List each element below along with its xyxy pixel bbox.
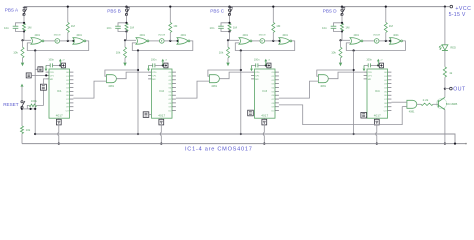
svg-text:4081: 4081 — [211, 84, 217, 88]
wire pull-up to rail — [385, 7, 387, 23]
IC 0V power pin box — [376, 118, 378, 119]
wire gate1 out to diode — [149, 40, 159, 42]
junction pulldown — [339, 39, 341, 41]
resistor 1M (R7) — [228, 23, 231, 31]
junction rail switch — [228, 6, 230, 8]
svg-text:BC182B: BC182B — [446, 102, 458, 106]
junction OUT node — [444, 88, 446, 90]
wire rail to LED — [444, 7, 446, 45]
junction pulldown — [124, 39, 126, 41]
NOR gate latch set (IC gate 2a 4001) — [136, 38, 147, 45]
svg-text:4001: 4001 — [354, 34, 360, 37]
svg-text:1M: 1M — [276, 24, 281, 28]
wire IC 0V to ground rail with hop — [376, 125, 378, 133]
wire IC3 output O to final gate bus — [279, 105, 402, 125]
junction rail pull-up — [169, 6, 171, 8]
push switch PBS C (SW3) — [229, 7, 231, 10]
AND gate 4081 stage 1 — [107, 75, 117, 83]
capacitor 0V stub — [251, 65, 253, 68]
capacitor 10n (C3) — [221, 23, 230, 26]
push switch PBS A (SW1) — [23, 7, 25, 10]
svg-text:4081: 4081 — [108, 84, 114, 88]
junction reset/0V — [454, 143, 456, 145]
diode 1N4148 (D1) — [55, 39, 60, 44]
svg-text:1M: 1M — [173, 24, 178, 28]
wire reset switch down — [21, 109, 23, 127]
svg-text:CO: CO — [66, 111, 70, 113]
diode 1N4148 (D4) — [374, 39, 379, 44]
NOR gate latch set (IC gate 3a 4001) — [239, 38, 250, 45]
wire diode to gate2 — [164, 40, 177, 42]
wire RC to gate input — [229, 32, 231, 41]
junction rail pull-up — [385, 6, 387, 8]
junction RC bottom — [23, 30, 25, 32]
IC right pins O0-O9 CO — [275, 71, 279, 73]
svg-text:MR: MR — [152, 79, 156, 81]
svg-text:4081: 4081 — [409, 110, 415, 114]
junction 0V rail — [263, 143, 265, 145]
junction rail switch — [341, 6, 343, 8]
IC 0V power pin box — [263, 118, 265, 119]
junction pull-up node — [272, 40, 274, 42]
tag box clock A — [26, 73, 31, 78]
junction pulldown — [21, 39, 23, 41]
svg-text:1N4148: 1N4148 — [373, 34, 381, 36]
svg-text:CO: CO — [168, 111, 172, 113]
+V arrow above IC — [59, 61, 61, 65]
ground arrow — [124, 58, 126, 63]
wire pull-up to rail — [272, 7, 274, 23]
junction RC bottom — [228, 30, 230, 32]
svg-text:1M: 1M — [345, 26, 350, 30]
resistor 1M (R10) — [341, 23, 344, 31]
svg-text:RED: RED — [450, 46, 456, 50]
svg-text:100n: 100n — [366, 59, 372, 62]
wire RC to gate input — [341, 32, 343, 41]
0V rail end — [465, 143, 467, 145]
junction 0V rail — [160, 143, 162, 145]
NOR gate latch set (IC gate 4a 4001) — [350, 38, 361, 45]
wire gate1 out to diode — [44, 40, 55, 42]
IC right pins O0-O9 CO — [388, 71, 392, 73]
wire AND output to IC clock pin — [328, 72, 363, 79]
svg-text:1N4148: 1N4148 — [54, 34, 62, 36]
junction IC1 clock — [45, 74, 47, 76]
svg-text:PBS D: PBS D — [323, 9, 337, 14]
svg-text:1M: 1M — [233, 26, 238, 30]
IC +V power pin box — [164, 63, 168, 68]
wire latch feedback — [27, 41, 88, 51]
resistor 10k pulldown (R2) — [22, 40, 24, 47]
wire gate1 out to diode — [252, 40, 260, 42]
svg-text:IC3: IC3 — [262, 89, 267, 93]
wire latch feedback — [235, 41, 294, 51]
svg-text:1M: 1M — [130, 26, 135, 30]
resistor 1M pull-up (R3) — [67, 32, 69, 41]
tag box MR block B — [143, 112, 149, 118]
junction on reset line — [353, 133, 355, 135]
resistor 10k pulldown (R5) — [124, 40, 126, 47]
resistor 10k pulldown (R11) — [340, 40, 342, 47]
push switch RESET (SW5) — [21, 101, 25, 109]
IC +V power pin box — [379, 63, 383, 68]
resistor 10k pulldown (R8) — [227, 40, 229, 47]
capacitor 10n (C1) — [16, 23, 25, 26]
tag box MR A — [40, 84, 46, 90]
capacitor 0V stub — [363, 65, 365, 68]
wire latch to AND upper input — [317, 70, 354, 76]
wire latch drop to reset line — [240, 51, 242, 135]
svg-text:1M: 1M — [27, 26, 32, 30]
svg-text:MR: MR — [255, 79, 259, 81]
svg-text:100n: 100n — [48, 59, 54, 62]
IC right pins O0-O9 CO — [172, 71, 176, 73]
wire latch feedback — [346, 41, 405, 51]
junction on reset line — [34, 133, 36, 135]
svg-text:10n: 10n — [210, 26, 215, 30]
wire AND output to IC clock pin — [220, 72, 252, 79]
svg-text:4017: 4017 — [374, 114, 381, 118]
NOR gate latch set (IC gate 1a 4001) — [31, 38, 42, 45]
junction 0V rail — [58, 143, 60, 145]
wire collector to OUT node — [444, 89, 446, 98]
NOR gate latch hold (IC gate 4b 4001) — [390, 38, 401, 45]
resistor 10k reset pulldown (R15) — [21, 126, 24, 134]
capacitor 0V stub — [148, 65, 150, 68]
terminal +VCC — [450, 5, 453, 8]
junction loop — [137, 69, 139, 71]
decoupling capacitor 100n (C8) — [364, 64, 368, 66]
wire previous IC output to AND lower input — [73, 81, 106, 98]
resistor 1M (R4) — [125, 23, 128, 31]
AND gate 4081 stage 2 — [210, 75, 220, 83]
tag box MR block C — [248, 110, 254, 116]
resistor 1M pull-up (R9) — [272, 32, 274, 41]
svg-text:CO: CO — [271, 111, 275, 113]
junction feedback drop — [34, 49, 36, 51]
resistor 1M (R1) — [23, 23, 26, 31]
wire switch to RC — [126, 16, 128, 23]
svg-text:2.2k: 2.2k — [423, 98, 429, 102]
junction RC top — [125, 22, 127, 24]
wire final gate lower input — [402, 106, 407, 108]
IC left pins CP0 CP1 MR — [251, 71, 254, 73]
svg-text:100n: 100n — [151, 59, 157, 62]
svg-text:4017: 4017 — [261, 114, 268, 118]
+V arrow above IC — [265, 61, 267, 65]
+V arrow above IC — [162, 61, 164, 65]
IC3 CMOS 4017 decade counter — [255, 69, 276, 118]
+V arrow above IC — [377, 61, 379, 65]
resistor 1M pull-up (R6) — [169, 32, 171, 41]
wire +V top rail — [24, 6, 450, 8]
wire RC to gate input — [23, 32, 25, 41]
svg-text:PBS C: PBS C — [210, 9, 224, 14]
junction decoupling — [59, 64, 61, 66]
wire switch to RC — [23, 16, 25, 23]
svg-text:100k: 100k — [31, 99, 38, 103]
IC +V power pin box — [267, 63, 271, 68]
svg-text:10n: 10n — [107, 26, 112, 30]
junction gate2 input — [177, 40, 179, 42]
wire latch feedback — [132, 41, 193, 51]
svg-text:IC2: IC2 — [159, 89, 164, 93]
svg-text:4017: 4017 — [158, 114, 165, 118]
junction gate2 input — [389, 40, 391, 42]
push switch PBS B (SW2) — [126, 7, 128, 10]
wire reset to latch resets — [22, 108, 35, 110]
svg-text:OUT: OUT — [453, 86, 466, 92]
wire IC 0V to ground rail with hop — [58, 125, 60, 133]
svg-text:IC1: IC1 — [57, 89, 62, 93]
wire gate to base resistor — [417, 103, 421, 105]
svg-text:10k: 10k — [13, 51, 18, 55]
junction pull-up node — [67, 40, 69, 42]
svg-text:10k: 10k — [219, 51, 224, 55]
NOR gate latch hold (IC gate 2b 4001) — [177, 38, 188, 45]
junction rail LED column — [444, 6, 446, 8]
junction pull-up node — [385, 40, 387, 42]
junction RC bottom — [125, 30, 127, 32]
wire reset line horizontal — [35, 134, 455, 144]
decoupling capacitor 100n (C7) — [252, 64, 256, 66]
junction rail pull-up — [67, 6, 69, 8]
junction feedback drop — [353, 49, 355, 51]
svg-text:4001: 4001 — [393, 34, 399, 37]
wire AND output to IC clock pin — [117, 72, 149, 79]
capacitor 10n (C4) — [334, 23, 343, 26]
AND gate 4081 output (G5) — [407, 100, 417, 108]
svg-text:10k: 10k — [116, 51, 121, 55]
IC2 CMOS 4017 decade counter — [152, 69, 173, 118]
svg-text:IC4: IC4 — [375, 89, 380, 93]
resistor 2.2k base (R13) — [421, 103, 433, 105]
0V rail — [22, 143, 466, 145]
wire RC to gate input — [126, 32, 128, 41]
ground arrow — [227, 58, 229, 63]
resistor 1k (R14) — [443, 67, 446, 77]
junction feedback drop — [240, 49, 242, 51]
wire diode to gate2 — [379, 40, 390, 42]
capacitor 10n (C2) — [118, 23, 127, 26]
svg-text:4001: 4001 — [243, 34, 249, 37]
svg-text:4001: 4001 — [35, 34, 41, 37]
wire gate1 out to diode — [363, 40, 374, 42]
svg-text:10n: 10n — [4, 26, 9, 30]
wire latch drop to reset line — [34, 51, 36, 135]
junction rail switch — [125, 6, 127, 8]
svg-text:1M: 1M — [389, 24, 394, 28]
wire latch drop to reset line — [353, 51, 355, 135]
+V arrow reset — [21, 84, 24, 87]
wire emitter to 0V rail — [444, 110, 446, 144]
junction pulldown — [227, 39, 229, 41]
wire previous IC output to AND lower input — [279, 81, 319, 98]
junction on reset line — [137, 133, 139, 135]
junction 0V rail — [376, 143, 378, 145]
svg-text:1M: 1M — [71, 24, 76, 28]
transistor BC182B NPN (Q1) — [437, 99, 447, 109]
junction RC top — [228, 22, 230, 24]
junction reset — [21, 108, 23, 110]
IC left pins CP0 CP1 MR — [46, 71, 49, 73]
junction — [30, 108, 32, 110]
junction RC bottom — [341, 30, 343, 32]
junction RC top — [341, 22, 343, 24]
capacitor 0V stub — [45, 65, 47, 68]
wire to 0V rail — [21, 134, 23, 144]
IC +V power pin box — [61, 63, 65, 68]
wire resistor to OUT node — [444, 77, 446, 88]
svg-text:MR: MR — [368, 79, 372, 81]
svg-text:10k: 10k — [331, 51, 336, 55]
IC left pins CP0 CP1 MR — [364, 71, 367, 73]
diode 1N4148 (D3) — [260, 39, 265, 44]
IC4 CMOS 4017 decade counter — [367, 69, 388, 118]
wire IC4 output to final gate — [391, 101, 407, 103]
wire LED to resistor — [444, 51, 446, 67]
junction decoupling — [377, 64, 379, 66]
svg-text:4017: 4017 — [56, 114, 63, 118]
wire switch to RC — [229, 16, 231, 23]
svg-text:4001: 4001 — [76, 34, 82, 37]
svg-text:10k: 10k — [26, 128, 31, 132]
junction loop — [240, 69, 242, 71]
junction reset bus — [34, 108, 36, 110]
wire latch to AND upper input — [208, 70, 241, 76]
junction feedback drop — [137, 49, 139, 51]
wire IC 0V to ground rail with hop — [160, 125, 162, 133]
junction decoupling — [265, 64, 267, 66]
svg-text:4001: 4001 — [181, 34, 187, 37]
NOR gate latch hold (IC gate 3b 4001) — [279, 38, 290, 45]
svg-text:IC1-4 are CMOS4017: IC1-4 are CMOS4017 — [185, 146, 253, 152]
IC left pins CP0 CP1 MR — [148, 71, 151, 73]
junction gate2 input — [278, 40, 280, 42]
ground arrow — [22, 58, 24, 63]
resistor 100k (R16) — [27, 105, 29, 109]
push switch PBS D (SW4) — [341, 7, 343, 10]
IC1 CMOS 4017 decade counter — [49, 69, 70, 118]
svg-text:1N4148: 1N4148 — [158, 34, 166, 36]
wire latch to AND upper input — [105, 70, 138, 76]
wire pull-up to rail — [169, 7, 171, 23]
decoupling capacitor 100n (C6) — [149, 64, 153, 66]
decoupling capacitor 100n (C5) — [46, 64, 50, 66]
LED red (LED1) — [442, 45, 448, 50]
junction emitter 0V — [444, 143, 446, 145]
svg-text:100n: 100n — [254, 59, 260, 62]
wire pull-up to rail — [67, 7, 69, 23]
junction pull-up node — [169, 40, 171, 42]
wire diode to gate2 — [60, 40, 73, 42]
svg-text:1N4148: 1N4148 — [259, 34, 267, 36]
junction decoupling — [162, 64, 164, 66]
ground arrow — [340, 58, 342, 63]
junction rail pull-up — [272, 6, 274, 8]
tag box latch A — [35, 68, 38, 70]
svg-text:PBS B: PBS B — [107, 9, 121, 14]
svg-text:RESET: RESET — [3, 102, 19, 107]
diode 1N4148 (D2) — [160, 39, 165, 44]
svg-text:4081: 4081 — [320, 84, 326, 88]
wire 100k to MR tag — [37, 90, 44, 105]
junction on reset line — [240, 133, 242, 135]
junction gate2 input — [72, 40, 74, 42]
IC 0V power pin box — [160, 118, 162, 119]
junction loop — [353, 69, 355, 71]
wire diode to gate2 — [265, 40, 279, 42]
IC right pins O0-O9 CO — [70, 71, 74, 73]
NOR gate latch hold (IC gate 1b 4001) — [73, 38, 84, 45]
svg-text:10n: 10n — [322, 26, 327, 30]
svg-text:CO: CO — [384, 111, 388, 113]
svg-text:PBS A: PBS A — [5, 8, 19, 13]
AND gate 4081 stage 3 — [318, 75, 328, 83]
svg-text:MR: MR — [50, 79, 54, 81]
wire latch drop to reset line — [137, 51, 139, 135]
wire previous IC output to AND lower input — [176, 81, 210, 98]
wire IC 0V to ground rail with hop — [263, 125, 265, 133]
resistor 1M pull-up (R12) — [385, 32, 387, 41]
svg-text:4001: 4001 — [140, 34, 146, 37]
svg-text:4001: 4001 — [282, 34, 288, 37]
junction RC top — [23, 22, 25, 24]
tag box MR block D — [361, 112, 367, 118]
IC 0V power pin box — [58, 118, 60, 119]
wire switch to RC — [341, 16, 343, 23]
terminal OUT — [445, 88, 450, 90]
svg-text:5-15 V: 5-15 V — [449, 12, 466, 18]
